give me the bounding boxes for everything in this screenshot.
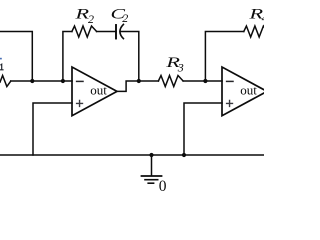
wire left side of R2C2 feedback loop — [63, 32, 72, 82]
resistor R3 — [158, 76, 183, 87]
ground — [142, 155, 167, 195]
svg-text:2: 2 — [122, 11, 128, 25]
node junction dot at x=32 — [30, 79, 34, 83]
node junction dot op2 plus tap — [182, 153, 186, 157]
resistor R2 — [72, 26, 97, 37]
wire ground rail — [0, 154, 264, 156]
wire op-amp U2 plus input to ground rail — [184, 103, 222, 155]
resistor R1 (partially cut at left edge) — [0, 58, 11, 87]
wire op-amp U1 output jog up to node — [117, 81, 139, 91]
label R2 — [74, 6, 94, 26]
node junction dot at x=63 — [61, 79, 65, 83]
node junction dot ground tap — [149, 153, 153, 157]
svg-text:0: 0 — [159, 178, 167, 195]
svg-text:out: out — [90, 83, 107, 98]
svg-text:4: 4 — [262, 11, 264, 25]
resistor R4 (cut at right edge) — [244, 26, 264, 37]
wire input line to op-amp U1 minus — [11, 80, 72, 82]
op-amp U1 — [72, 67, 117, 116]
wire R4 feedback loop up and right — [205, 32, 243, 82]
node junction dot output U1 — [137, 79, 141, 83]
wire C2 to right corner of loop, down to output node — [121, 32, 139, 82]
label R3 — [165, 54, 184, 74]
svg-text:2: 2 — [88, 12, 94, 26]
wire R3 to op-amp U2 minus — [183, 80, 222, 82]
svg-text:out: out — [240, 83, 257, 98]
wire node to R3 — [139, 80, 159, 82]
label R4 (subscript cut) — [248, 6, 267, 25]
capacitor C2 — [116, 24, 123, 38]
wire op-amp U1 plus input to ground rail — [33, 103, 72, 155]
label C2 — [111, 6, 129, 25]
svg-text:3: 3 — [177, 60, 184, 74]
op-amp U2 (apex cut at right edge) — [222, 67, 267, 116]
node junction dot at x=205 — [203, 79, 207, 83]
wire R2 to C2 — [97, 31, 116, 33]
wire top-left feedback (cut at edge) — [0, 32, 32, 82]
